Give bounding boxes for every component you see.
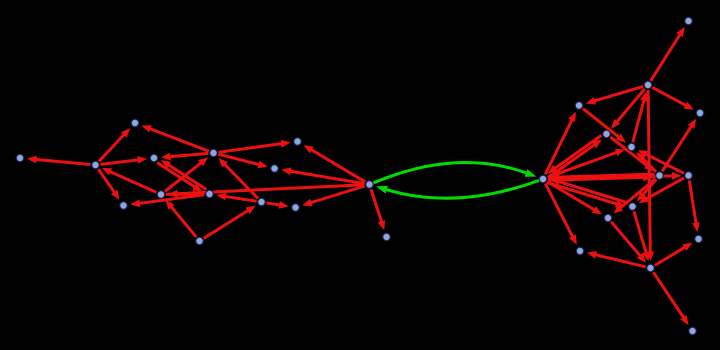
- edge C->G: [157, 163, 202, 193]
- node A: [131, 119, 139, 127]
- edge T->V: [548, 135, 602, 173]
- edge K->D: [218, 158, 258, 198]
- edge W->AA: [637, 179, 656, 201]
- edge H->K: [204, 206, 256, 239]
- edge V->W: [548, 174, 653, 182]
- edge AA->V: [550, 178, 628, 203]
- node I: [294, 138, 302, 146]
- edge X->AA: [639, 178, 685, 203]
- node L: [292, 204, 300, 212]
- node S: [696, 109, 704, 117]
- node N: [383, 233, 391, 241]
- node AC: [695, 235, 703, 243]
- edge M->N: [371, 189, 385, 230]
- edge W->V: [550, 173, 655, 181]
- node E: [120, 202, 128, 210]
- edge AB->AC: [655, 243, 693, 266]
- edge B->O: [27, 156, 91, 165]
- edge V->U: [548, 149, 625, 177]
- green curved edge V->M: [376, 180, 539, 198]
- edge K->G: [216, 193, 256, 202]
- edge V->Y: [547, 182, 602, 215]
- edge X->AC: [689, 180, 700, 232]
- edge V->T: [548, 140, 602, 178]
- edge Q->T: [611, 89, 645, 129]
- node V: [539, 175, 547, 183]
- edge V->AA: [547, 183, 625, 208]
- edge F->D: [165, 157, 208, 191]
- node C: [150, 154, 158, 162]
- node U: [628, 143, 636, 151]
- node J: [271, 165, 279, 173]
- edge K->L: [266, 201, 288, 209]
- edge B->C: [101, 156, 148, 164]
- edge M->J: [281, 167, 364, 183]
- edge AA->AB: [634, 211, 650, 261]
- edge D->I: [219, 140, 291, 152]
- edge AB->Z: [587, 251, 646, 267]
- edge W->S: [662, 119, 696, 171]
- edge D->C: [161, 153, 209, 161]
- edge Q->S: [652, 87, 693, 109]
- node AA: [629, 203, 637, 211]
- edge V->Z: [545, 183, 577, 244]
- edge X->U: [638, 150, 684, 173]
- node X: [685, 172, 693, 180]
- edge Q->AB: [646, 90, 654, 261]
- node AB: [647, 264, 655, 272]
- green curved edge M->V: [373, 163, 536, 183]
- edge W->U: [636, 152, 656, 172]
- edge G->E: [130, 195, 204, 208]
- node O: [16, 154, 24, 162]
- node F: [157, 191, 165, 199]
- edge V->X: [548, 172, 682, 180]
- node G: [206, 190, 214, 198]
- node Z: [576, 247, 584, 255]
- edge U->Q: [633, 92, 648, 142]
- edge AB->AD: [653, 272, 688, 325]
- node K: [258, 198, 266, 206]
- edge F->G: [166, 190, 203, 198]
- edge G->C: [161, 160, 206, 190]
- edge M->F: [168, 185, 365, 198]
- edge M->I: [304, 145, 366, 182]
- edge Q->R: [586, 86, 644, 104]
- edge D->J: [218, 154, 267, 168]
- edge Y->AB: [611, 222, 646, 263]
- edge Q->P: [651, 27, 685, 81]
- edge B->E: [98, 169, 119, 200]
- node Q: [644, 81, 652, 89]
- edge R->U: [583, 109, 626, 143]
- node W: [656, 172, 664, 180]
- edge M->L: [302, 186, 365, 206]
- node T: [603, 130, 611, 138]
- edge B->A: [99, 128, 130, 161]
- node D: [210, 149, 218, 157]
- node R: [575, 102, 583, 110]
- node Y: [604, 214, 612, 222]
- edge D->A: [142, 125, 209, 151]
- node B: [92, 161, 100, 169]
- edge F->B: [102, 168, 156, 193]
- node P: [685, 17, 693, 25]
- edge V->R: [545, 112, 576, 175]
- edge T->W: [610, 137, 654, 171]
- edge W->Y: [613, 179, 655, 214]
- edge H->F: [166, 200, 197, 237]
- node H: [196, 237, 204, 245]
- node AD: [689, 327, 697, 335]
- node M: [366, 181, 374, 189]
